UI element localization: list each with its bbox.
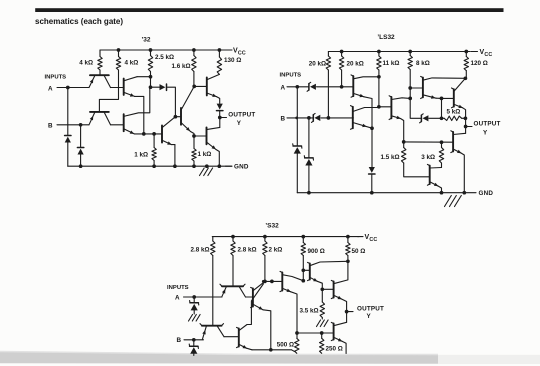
label Y ('S32): [367, 313, 372, 320]
node 120 / collectors ('LS32): [464, 76, 468, 80]
node A clamp junction ('S32): [192, 295, 196, 299]
svg-text:4 kΩ: 4 kΩ: [125, 60, 139, 67]
label 'S32: [265, 223, 279, 230]
node 1.6k / Q7 base: [192, 85, 196, 89]
wire node to Q7 base: [194, 85, 207, 87]
node Q3 collector ('LS32): [408, 97, 412, 101]
node B 20k junction: [327, 116, 331, 120]
VCC label ('S32): [358, 234, 378, 243]
GND rail ('32): [68, 165, 232, 167]
node A clamp junction: [66, 86, 70, 90]
wire N1 to N2: [150, 77, 152, 88]
diode level shift ('LS32): [369, 167, 375, 193]
wire base bus W1 ('S32): [297, 332, 334, 334]
wire Q3 collector to Q4 base: [111, 124, 124, 126]
node rail 11k: [377, 50, 381, 54]
page top rule: [35, 8, 503, 12]
node 8k / Q4 base ('LS32): [408, 86, 412, 90]
label B ('LS32): [281, 116, 286, 123]
node 5k left: [440, 116, 444, 120]
wire node to Q7 base ('S32): [322, 288, 333, 290]
node A 20k junction: [340, 85, 344, 89]
label 3.5 k&#937;: [299, 308, 318, 315]
resistor 20k input A ('LS32): [326, 52, 330, 118]
svg-text:1 kΩ: 1 kΩ: [198, 151, 212, 158]
node 2k bottom ('S32): [263, 280, 267, 284]
svg-text:5 kΩ: 5 kΩ: [447, 109, 461, 116]
label 'LS32: [377, 34, 395, 41]
wire input B ('LS32): [287, 117, 353, 119]
wire input A ('LS32): [287, 86, 353, 88]
node rail R7: [192, 164, 196, 168]
label 2.8 k&#937; (1): [190, 247, 209, 254]
transistor Q7 output top ('32): [207, 74, 220, 103]
node 900 / Q6 base ('S32): [301, 268, 305, 272]
node rail 20k-2: [340, 50, 344, 54]
label 2 k&#937;: [269, 247, 283, 254]
wire node down to 5k: [441, 98, 443, 118]
diode A clamp schottky ('S32): [190, 297, 199, 314]
node mid wire ('S32): [270, 280, 274, 284]
node Q2 emitter junction: [142, 132, 146, 136]
svg-text:4 kΩ: 4 kΩ: [79, 60, 93, 67]
transistor Q1 input A ('32): [89, 75, 111, 87]
label 3 k&#937;: [421, 154, 435, 161]
node 11k / Q1 collector: [377, 75, 381, 79]
node Q4 collector join ('S32): [262, 280, 265, 283]
wire output tap ('LS32): [466, 126, 472, 128]
transistor Q5 final splitter ('S32): [280, 271, 303, 333]
wire Q1 collector to splitter base ('S32): [246, 296, 253, 298]
wire to antisat diode: [410, 98, 421, 118]
svg-text:2.8 kΩ: 2.8 kΩ: [190, 247, 209, 254]
label R2 4 k&#937;: [125, 60, 139, 67]
diode B clamp ('LS32): [304, 118, 313, 193]
svg-text:Y: Y: [367, 313, 372, 320]
svg-text:2 kΩ: 2 kΩ: [269, 247, 283, 254]
node B clamp junction: [307, 116, 311, 120]
node rail R6: [152, 164, 156, 168]
transistor Q5 pulldown ('32): [162, 117, 175, 167]
node rail B clamp: [307, 191, 311, 195]
svg-text:Y: Y: [237, 120, 242, 127]
label R5 130 &#937;: [224, 57, 241, 64]
wire node to Q6 base ('S32): [303, 269, 310, 271]
svg-text:OUTPUT: OUTPUT: [357, 306, 384, 313]
node Q6 emitter / 3.5k ('S32): [320, 287, 324, 291]
resistor 120 ('LS32): [464, 52, 468, 79]
svg-text:INPUTS: INPUTS: [167, 285, 189, 291]
node N1 2.5k bottom: [149, 75, 153, 79]
svg-text:A: A: [281, 84, 286, 91]
transistor Q5 output follower ('LS32): [452, 78, 466, 118]
node output Y ('S32): [345, 310, 349, 314]
transistor Q6 phase splitter ('32): [181, 86, 194, 136]
resistor R7 1k ('32): [192, 136, 196, 166]
wire input A ('32): [57, 87, 89, 89]
node Q4 emitter / Q5 base: [440, 97, 444, 101]
svg-text:900 Ω: 900 Ω: [308, 248, 325, 255]
svg-text:8 kΩ: 8 kΩ: [416, 60, 430, 67]
resistor 2.8k A ('S32): [211, 237, 215, 326]
transistor Q4 phase splitter B ('S32): [237, 281, 264, 349]
diode input B schottky ('LS32): [312, 113, 321, 122]
transistor Q1 input A ('S32): [220, 284, 246, 297]
label 5 k&#937;: [447, 109, 461, 116]
ground symbol 3.5k ('S32): [317, 320, 329, 327]
resistor R6 1k ('32): [152, 134, 156, 166]
svg-text:130 Ω: 130 Ω: [224, 57, 241, 64]
resistor 250 ('S32): [320, 333, 324, 353]
node R6 top junction: [152, 132, 156, 136]
label R7 1 k&#937;: [198, 151, 212, 158]
svg-text:2.5 kΩ: 2.5 kΩ: [155, 54, 174, 61]
label 11 k&#937;: [383, 60, 400, 67]
label INPUTS ('32): [45, 75, 67, 81]
svg-text:3 kΩ: 3 kΩ: [421, 154, 435, 161]
svg-text:120 Ω: 120 Ω: [471, 60, 488, 67]
label OUTPUT ('S32): [357, 306, 384, 313]
wire emitter bus W2 ('S32): [252, 350, 295, 352]
label A ('S32): [175, 295, 180, 302]
label 8 k&#937;: [416, 60, 430, 67]
wire node to Q6 base: [175, 116, 181, 118]
node output Y ('32): [218, 116, 222, 120]
resistor 1.5k ('LS32): [402, 142, 430, 177]
svg-text:A: A: [48, 86, 53, 93]
wire common emitters A/B ('32): [134, 133, 162, 135]
label 250 &#937;: [326, 346, 343, 353]
wire emitters to level diode: [371, 128, 373, 167]
transistor Q8 output pulldown ('S32): [331, 322, 346, 353]
transistor Q4 phase splitter B ('32): [124, 87, 150, 134]
wire Q1 collector to Q2 base: [111, 87, 124, 89]
node rail 50: [346, 235, 350, 239]
transistor Q8 output pulldown ('32): [207, 127, 220, 166]
svg-text:’LS32: ’LS32: [377, 34, 395, 41]
svg-text:GND: GND: [479, 190, 494, 197]
label 900 &#937;: [308, 248, 325, 255]
node Q6 base ('32): [174, 115, 178, 119]
node Q5 collector ('S32): [301, 279, 305, 283]
svg-text:INPUTS: INPUTS: [280, 73, 302, 79]
svg-text:20 kΩ: 20 kΩ: [347, 61, 364, 68]
VCC rail ('LS32): [328, 51, 470, 53]
resistor 20k input B ('LS32): [339, 52, 343, 87]
VCC label ('LS32): [471, 49, 492, 58]
node 50 / collectors ('S32): [346, 259, 350, 263]
node 5k right: [464, 116, 468, 120]
node rail 120: [464, 50, 468, 54]
label R3 2.5 k&#937;: [155, 54, 174, 61]
wire output to Q8 collector: [219, 118, 221, 128]
wire node to Q5 base: [442, 97, 454, 99]
diode D1 input A clamp ('32): [65, 88, 71, 167]
svg-text:INPUTS: INPUTS: [45, 75, 67, 81]
wire input A ('S32): [184, 296, 223, 298]
resistor R3 2.5k ('32): [148, 50, 152, 77]
svg-text:schematics (each gate): schematics (each gate): [35, 17, 123, 26]
svg-text:CC: CC: [484, 52, 492, 58]
svg-text:CC: CC: [369, 237, 377, 243]
wire node to Q3 base: [379, 106, 392, 108]
svg-text:20 kΩ: 20 kΩ: [309, 61, 326, 68]
label GND ('LS32): [479, 190, 494, 197]
node B crossing: [295, 117, 298, 120]
svg-text:2.8 kΩ: 2.8 kΩ: [238, 247, 257, 254]
svg-text:3.5 kΩ: 3.5 kΩ: [299, 308, 318, 315]
diode D2 input B clamp ('32): [77, 125, 83, 166]
wire 11k node down: [378, 77, 380, 107]
wire node to splitter base ('S32): [265, 280, 282, 282]
node: rail junction R2: [117, 48, 121, 52]
transistor Q3 phase splitter A ('S32): [251, 281, 271, 349]
diode B clamp schottky ('S32): [189, 340, 198, 356]
wire R2 to Q3 base: [99, 70, 118, 112]
label R4 1.6 k&#937;: [171, 63, 190, 70]
node: rail junction R5: [218, 48, 222, 52]
svg-text:1.5 kΩ: 1.5 kΩ: [380, 154, 399, 161]
node rail 2.8k-2: [231, 235, 235, 239]
label 2.8 k&#937; (2): [238, 247, 257, 254]
resistor R5 130 ('32): [217, 50, 221, 74]
node W2 junction ('S32): [269, 348, 273, 352]
ground symbol ('LS32): [445, 196, 462, 207]
wire 8k node down: [409, 88, 411, 98]
transistor Q4 darlington ('LS32): [421, 76, 466, 98]
resistor 8k ('LS32): [408, 52, 412, 89]
bottom scanner band: [0, 351, 540, 364]
label INPUTS ('LS32): [280, 73, 302, 79]
label R1 4 k&#937;: [79, 60, 93, 67]
resistor 500 ('S32): [295, 333, 299, 353]
node emitters join ('LS32): [370, 126, 374, 130]
label 20 k&#937; (1): [309, 61, 326, 68]
node Q6 emitter / R7 / Q8 base: [192, 134, 196, 138]
label B ('S32): [177, 337, 182, 344]
wire diode to 5k node: [429, 117, 442, 119]
wire N2 to D3: [151, 86, 160, 88]
label A ('32): [48, 86, 53, 93]
diode input A schottky ('LS32): [307, 82, 316, 91]
resistor 5k ('LS32): [442, 116, 466, 120]
svg-text:’S32: ’S32: [265, 223, 279, 230]
resistor 2.8k B ('S32): [231, 237, 235, 287]
svg-text:Y: Y: [483, 130, 488, 137]
node rail Q5 emitter: [173, 164, 177, 168]
svg-text:1.6 kΩ: 1.6 kΩ: [171, 63, 190, 70]
diode A clamp ('LS32): [293, 87, 302, 193]
node W1 250 ('S32): [320, 331, 324, 335]
transistor Q1 ('LS32): [351, 75, 379, 128]
svg-text:500 Ω: 500 Ω: [277, 342, 294, 349]
resistor 3k ('LS32): [439, 142, 443, 167]
node rail level diode: [370, 191, 374, 195]
svg-text:B: B: [48, 123, 53, 130]
svg-text:B: B: [281, 116, 286, 123]
diode D4 output ('32): [217, 104, 223, 118]
label 20 k&#937; (2): [347, 61, 364, 68]
transistor Q7 output follower ('S32): [331, 261, 348, 311]
svg-text:B: B: [177, 337, 182, 344]
node rail Q8 emitter: [217, 164, 221, 168]
node A clamp junction ('LS32): [295, 85, 299, 89]
svg-text:’32: ’32: [141, 37, 150, 44]
transistor Q2 phase splitter A ('32): [124, 77, 151, 134]
resistor 3.5k ('S32): [320, 289, 324, 319]
svg-text:250 Ω: 250 Ω: [326, 346, 343, 353]
transistor Q7 output pulldown ('LS32): [451, 131, 466, 193]
svg-text:11 kΩ: 11 kΩ: [383, 60, 400, 67]
label 500 &#937;: [277, 342, 294, 349]
transistor Q3 phase splitter ('LS32): [389, 96, 410, 142]
label A ('LS32): [281, 84, 286, 91]
label Y ('32): [237, 120, 242, 127]
label 1.5 k&#937;: [380, 154, 399, 161]
GND rail ('LS32): [297, 192, 476, 194]
transistor Q2 ('LS32): [351, 106, 379, 130]
diode D3 ('32): [160, 84, 167, 90]
resistor R1 4k ('32): [98, 50, 102, 75]
label OUTPUT ('LS32): [474, 121, 501, 128]
node output Y ('LS32): [464, 125, 468, 129]
ground symbol A clamp ('S32): [189, 315, 201, 322]
VCC rail ('S32): [212, 236, 359, 238]
node rail 900: [301, 235, 305, 239]
transistor Q2 input B ('S32): [200, 324, 224, 340]
node W1 500 ('S32): [295, 331, 299, 335]
wire input B ('32): [57, 124, 89, 126]
svg-text:A: A: [175, 295, 180, 302]
label 120 &#937;: [471, 60, 488, 67]
node: rail junction R4: [192, 48, 196, 52]
resistor R4 1.6k ('32): [192, 50, 196, 86]
node rail Q7 emitter: [462, 191, 466, 195]
node Q3 emitter / 1.5k: [402, 140, 406, 144]
diode antisat schottky ('LS32): [420, 114, 429, 123]
node rail gnd tap: [205, 164, 209, 168]
label INPUTS ('S32): [167, 285, 189, 291]
wire output tap ('32): [220, 117, 227, 119]
wire splitter emitter bus ('LS32): [404, 141, 453, 143]
label Y ('LS32): [483, 130, 488, 137]
svg-text:OUTPUT: OUTPUT: [228, 112, 255, 119]
svg-text:OUTPUT: OUTPUT: [474, 121, 501, 128]
wire output tap ('S32): [347, 311, 353, 313]
svg-text:CC: CC: [238, 50, 246, 56]
node N2 diode feed: [149, 85, 153, 89]
resistor R2 4k ('32): [116, 50, 120, 70]
node rail 8k: [408, 50, 412, 54]
resistor 900 ('S32): [301, 237, 305, 281]
wire output vertical ('LS32): [465, 118, 467, 133]
transistor Q6 darlington ('S32): [308, 261, 348, 289]
transistor Q3 input B ('32): [89, 112, 111, 125]
node: rail junction R3: [149, 48, 153, 52]
svg-text:GND: GND: [234, 164, 249, 171]
svg-text:50 Ω: 50 Ω: [352, 248, 366, 255]
VCC rail ('32): [100, 49, 232, 51]
node B clamp junction ('S32): [192, 338, 196, 342]
label 50 &#937;: [352, 248, 366, 255]
wire input B ('S32): [184, 339, 204, 341]
node Q2 collector / Q3 base: [377, 105, 381, 109]
wire D3 to Q6 base node: [168, 87, 176, 117]
wire Q2 collector to T_B base ('S32): [224, 336, 239, 338]
node rail Q6 emitter: [440, 191, 444, 195]
label OUTPUT ('32): [228, 112, 255, 119]
node B clamp junction: [79, 123, 83, 127]
resistor 2k ('S32): [263, 237, 267, 282]
resistor 11k ('LS32): [377, 52, 381, 77]
node rail 2k: [263, 235, 267, 239]
title: schematics (each gate): [35, 17, 123, 26]
node rail D2: [79, 164, 83, 168]
svg-text:1 kΩ: 1 kΩ: [134, 152, 148, 159]
label R6 1 k&#937;: [134, 152, 148, 159]
label B ('32): [48, 123, 53, 130]
wire output to Q8 collector ('S32): [346, 312, 348, 323]
wire node to Q8 base: [194, 135, 207, 137]
label '32: [141, 37, 150, 44]
label GND ('32): [226, 164, 249, 171]
VCC label ('32): [226, 48, 246, 57]
resistor 50 ('S32): [346, 237, 350, 262]
transistor Q6 squaring ('LS32): [427, 164, 441, 192]
wire node to Q4 base: [410, 87, 423, 89]
ground symbol ('32): [200, 168, 213, 176]
node 3k top ('LS32): [440, 140, 444, 144]
